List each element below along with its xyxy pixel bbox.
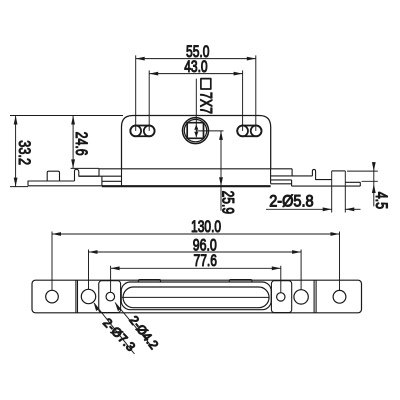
faceplate mid top surface — [99, 168, 292, 170]
arrows 2-05.8 (outside pointing in) — [323, 207, 355, 211]
svg-text:77.6: 77.6 — [194, 252, 217, 270]
dim line 96.0 — [89, 251, 302, 253]
svg-text:24.6: 24.6 — [71, 132, 89, 156]
faceplate outline — [32, 280, 362, 313]
central slot obround — [123, 287, 269, 308]
bottom ext line 33.2 — [10, 186, 28, 188]
right step boss — [271, 169, 293, 186]
dim line 43.0 — [149, 73, 242, 75]
top extension line (33.2 / 24.6) — [10, 115, 123, 117]
ext lines 43.0 — [149, 70, 242, 130]
ext lines 2-05.8 — [332, 171, 346, 213]
spindle square 7x7 — [187, 123, 203, 139]
right divider double line — [314, 280, 316, 313]
right hole block top — [332, 170, 346, 172]
arrows 25.9 — [219, 131, 223, 186]
leader 2-04.2 — [115, 303, 151, 346]
central channel recess — [121, 282, 271, 310]
right clip hook — [312, 169, 331, 179]
leader 2-07.3 — [94, 303, 135, 354]
svg-text:4.5: 4.5 — [371, 192, 389, 209]
dim line 55.0 — [136, 58, 256, 60]
right tab — [229, 280, 252, 282]
left guide bump — [47, 171, 59, 181]
right pair circle A — [237, 125, 248, 136]
arrows 96.0 — [89, 250, 302, 254]
arrows 7x7 small — [194, 124, 198, 137]
rod line through slot — [122, 296, 269, 298]
left tab — [139, 280, 161, 282]
dim line 24.6 — [72, 116, 74, 169]
arrow leader 2-07.3 — [94, 302, 100, 311]
right surface after block — [345, 182, 360, 186]
left boss block — [79, 176, 122, 186]
arrow leader 2-04.2 — [115, 303, 121, 312]
svg-text:33.2: 33.2 — [14, 140, 32, 165]
svg-text:2-Ø5.8: 2-Ø5.8 — [269, 193, 313, 211]
right surface to hook — [292, 175, 312, 177]
left pair circle A — [130, 125, 141, 136]
dim line 2-05.8 left part — [266, 208, 332, 210]
dim line 77.6 — [111, 267, 281, 269]
leader line square 7X7 — [195, 79, 197, 138]
plate bottom edge right — [292, 185, 361, 187]
right slotted hole (stadium) — [237, 125, 261, 136]
ext line 24.6 bottom — [71, 167, 99, 169]
svg-text:7X7: 7X7 — [196, 92, 214, 114]
svg-text:130.0: 130.0 — [191, 218, 221, 236]
spindle boss inner circle — [184, 119, 206, 141]
plate bottom edge thick mid — [102, 185, 271, 187]
right rounded segment — [271, 281, 291, 313]
left pair circle B — [144, 125, 155, 136]
dim line 25.9 — [220, 131, 222, 211]
hole 07.3 left — [81, 289, 95, 303]
dim line 33.2 — [15, 116, 17, 187]
square symbol of 7X7 — [201, 79, 211, 89]
dim line 130.0 — [52, 233, 340, 235]
hole 04.2 right — [277, 293, 285, 301]
left end hole — [46, 290, 59, 303]
ext lines 4.5 — [347, 171, 378, 181]
housing left edge extension down — [121, 169, 123, 186]
arrows 77.6 — [111, 266, 281, 270]
dim line 2-05.8 right part — [345, 208, 360, 210]
left rounded segment — [99, 281, 121, 313]
right pair circle B — [251, 125, 262, 136]
hole 07.3 right — [294, 290, 308, 304]
housing body — [122, 116, 271, 169]
ext lines 96.0 — [89, 250, 302, 290]
hole 04.2 left — [106, 292, 115, 301]
spindle boss outer circle — [183, 118, 209, 144]
right end hole — [333, 290, 346, 303]
arrows 24.6 — [71, 116, 75, 169]
plate bottom edge thin left — [28, 185, 102, 187]
arrows 4.5 (outside) — [372, 162, 376, 193]
ext lines 55.0 — [136, 55, 256, 130]
svg-text:25.9: 25.9 — [218, 191, 236, 214]
dim line 4.5 — [373, 164, 375, 207]
plate left end — [28, 181, 75, 186]
left clip hook — [75, 169, 100, 181]
left divider double line — [76, 280, 78, 313]
arrows 33.2 — [14, 116, 18, 187]
centerline from spindle — [196, 130, 223, 132]
ext lines 130.0 — [52, 232, 340, 291]
svg-text:43.0: 43.0 — [184, 58, 207, 76]
left slotted hole (stadium) — [130, 125, 154, 136]
arrows 55.0 — [136, 57, 256, 61]
ext lines 77.6 — [111, 266, 281, 293]
arrows 43.0 — [149, 72, 242, 76]
arrows 130.0 — [52, 232, 340, 236]
